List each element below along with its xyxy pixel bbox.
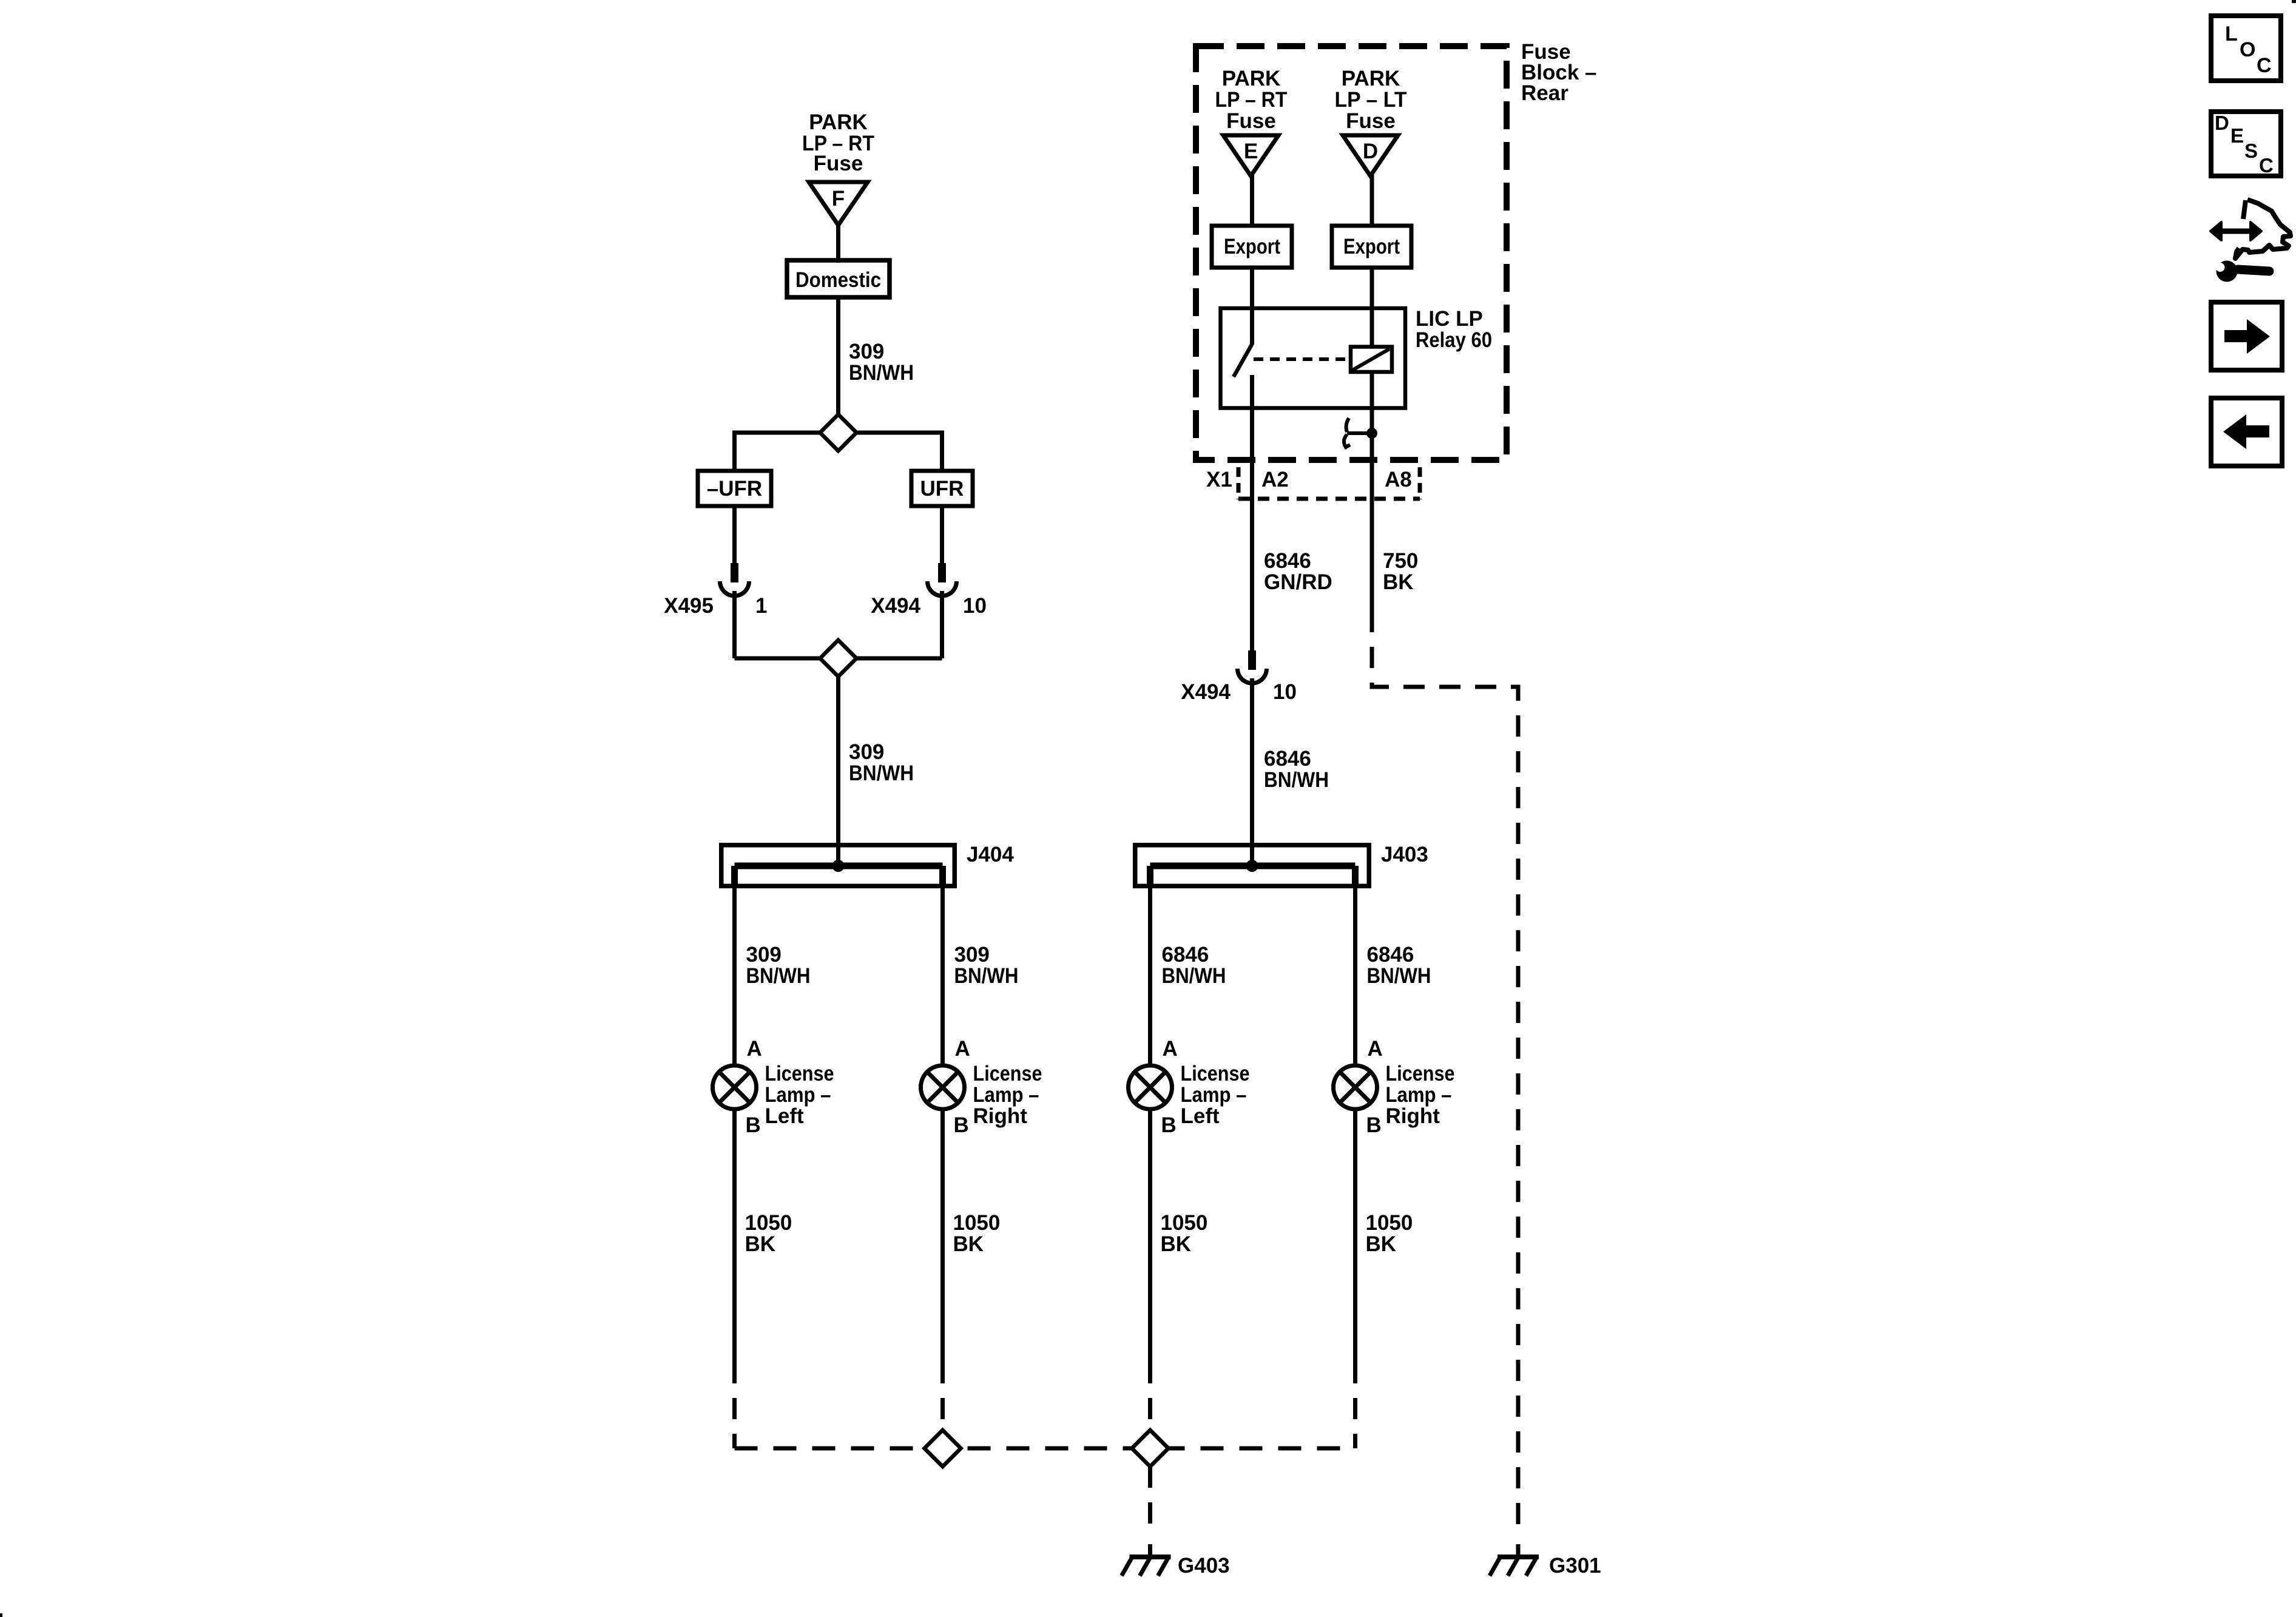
option box Export (left) <box>1212 226 1292 268</box>
splice diamond (lower) <box>820 640 857 677</box>
svg-text:Left: Left <box>765 1104 805 1128</box>
svg-text:License: License <box>765 1062 834 1085</box>
wire lower rail merging branches <box>735 657 942 661</box>
svg-text:Right: Right <box>973 1104 1028 1128</box>
svg-text:D: D <box>2215 112 2229 134</box>
svg-text:BN/WH: BN/WH <box>849 361 914 385</box>
svg-text:B: B <box>1366 1113 1382 1137</box>
svg-text:X495: X495 <box>664 594 714 618</box>
svg-text:License: License <box>1181 1062 1250 1085</box>
svg-text:G301: G301 <box>1549 1554 1601 1578</box>
svg-text:E: E <box>1244 140 1258 163</box>
svg-text:1050: 1050 <box>953 1211 1001 1235</box>
svg-text:BK: BK <box>953 1232 984 1256</box>
page mark top right <box>2292 0 2296 3</box>
svg-text:BK: BK <box>1383 570 1414 594</box>
relay LIC LP Relay 60 box <box>1221 308 1406 408</box>
svg-text:Fuse: Fuse <box>1226 109 1276 133</box>
page mark bottom left <box>0 1613 2 1617</box>
relay switch arm <box>1250 311 1254 345</box>
wire E fuse to Export box <box>1250 175 1254 228</box>
pin A <box>1368 1037 1383 1061</box>
svg-text:Fuse: Fuse <box>814 152 863 175</box>
svg-text:6846: 6846 <box>1162 943 1209 967</box>
svg-text:BK: BK <box>1161 1232 1192 1256</box>
svg-text:Relay 60: Relay 60 <box>1416 328 1492 352</box>
dashed wire to ground G403 <box>1148 1467 1152 1533</box>
wire A8 below relay with ground-strap hook <box>1370 410 1374 611</box>
svg-text:Lamp –: Lamp – <box>1181 1083 1247 1107</box>
svg-text:UFR: UFR <box>920 477 964 501</box>
wire labels 6846 GN/RD and 750 BK <box>1264 549 1418 594</box>
svg-text:D: D <box>1363 140 1378 163</box>
svg-text:Right: Right <box>1386 1104 1440 1128</box>
svg-text:G403: G403 <box>1178 1554 1230 1578</box>
wire right lamp right lamp to ground bus, label 1050 BK <box>1353 1109 1357 1362</box>
svg-text:PARK: PARK <box>1342 67 1400 90</box>
pin B <box>746 1113 761 1137</box>
svg-text:309: 309 <box>849 740 884 764</box>
sidebar icon arrow right <box>2211 302 2282 370</box>
lamp License Lamp - Left <box>1129 1065 1172 1109</box>
svg-text:10: 10 <box>1273 680 1297 704</box>
ground bus dashed wire <box>735 1447 1356 1451</box>
wire left lamp right from junction to lamp, label 309 BN/WH <box>940 868 945 1067</box>
sidebar icon DESC <box>2211 112 2281 176</box>
svg-text:BK: BK <box>745 1232 776 1256</box>
label Fuse Block - Rear <box>1521 40 1597 105</box>
fuse block - rear dashed border <box>1196 46 1507 460</box>
lamp License Lamp - Right <box>1334 1065 1377 1109</box>
splice diamond on bus (left) <box>925 1430 961 1467</box>
svg-text:6846: 6846 <box>1367 943 1414 967</box>
fuse symbol D (triangle) <box>1343 135 1398 176</box>
svg-text:1050: 1050 <box>1366 1211 1413 1235</box>
pin A <box>747 1037 762 1061</box>
wire D through coil <box>1370 311 1374 347</box>
svg-text:A: A <box>747 1037 762 1061</box>
svg-text:6846: 6846 <box>1264 747 1311 771</box>
svg-text:–UFR: –UFR <box>707 477 762 501</box>
svg-text:C: C <box>2257 54 2272 77</box>
wire upper rail to -UFR / UFR branches <box>735 433 942 471</box>
svg-text:X494: X494 <box>871 594 920 618</box>
svg-text:750: 750 <box>1383 549 1418 573</box>
svg-text:PARK: PARK <box>809 110 868 134</box>
svg-text:LIC LP: LIC LP <box>1416 307 1483 331</box>
inline connector X494 pin 10 (right circuit) <box>1248 650 1256 670</box>
pin A <box>955 1037 970 1061</box>
relay control dashed line <box>1254 357 1351 361</box>
svg-text:O: O <box>2240 38 2255 61</box>
junction block J404 <box>721 845 955 886</box>
svg-text:J403: J403 <box>1381 843 1428 866</box>
svg-text:BN/WH: BN/WH <box>1162 964 1226 988</box>
svg-text:Rear: Rear <box>1521 81 1568 105</box>
wire diamond to junction J404, label 309 BN/WH <box>836 677 840 865</box>
fuse PARK LP - RT label <box>1215 67 1288 133</box>
svg-text:A8: A8 <box>1385 468 1412 491</box>
lamp License Lamp - Left <box>713 1065 757 1109</box>
wire left lamp right lamp to ground bus, label 1050 BK <box>940 1109 945 1362</box>
svg-text:A2: A2 <box>1261 468 1289 491</box>
wire A2 below relay <box>1250 408 1254 650</box>
fuse symbol F (triangle) <box>809 182 868 225</box>
svg-text:LP – LT: LP – LT <box>1335 88 1407 112</box>
option box Export (right) <box>1332 226 1411 268</box>
svg-text:BK: BK <box>1366 1232 1397 1256</box>
wire Domestic to splice diamond, label 309 BN/WH <box>836 297 840 416</box>
svg-text:Lamp –: Lamp – <box>765 1083 831 1107</box>
svg-text:Lamp –: Lamp – <box>973 1083 1039 1107</box>
fuse PARK LP - LT label <box>1335 67 1407 133</box>
svg-text:1: 1 <box>755 594 767 618</box>
junction block J403 <box>1135 845 1369 886</box>
svg-text:B: B <box>746 1113 761 1137</box>
fuse symbol E (triangle) <box>1223 135 1278 176</box>
svg-text:Lamp –: Lamp – <box>1386 1083 1452 1107</box>
fuse PARK LP - RT label (left circuit) <box>802 110 874 175</box>
svg-text:X1: X1 <box>1206 468 1232 491</box>
wire Export to relay (left) <box>1250 268 1254 311</box>
pin B <box>1161 1113 1177 1137</box>
wire right lamp right from junction to lamp, label 6846 BN/WH <box>1353 868 1357 1067</box>
ground G403 <box>1148 1544 1152 1556</box>
svg-text:PARK: PARK <box>1222 67 1281 90</box>
svg-text:Domestic: Domestic <box>795 268 881 292</box>
wire Export to relay (right) <box>1370 268 1374 311</box>
wire 750 BK dashed to ground G301 <box>1372 611 1518 1533</box>
svg-text:B: B <box>954 1113 969 1137</box>
svg-text:License: License <box>1386 1062 1455 1085</box>
svg-text:J404: J404 <box>967 843 1014 866</box>
wire left lamp left lamp to ground bus, label 1050 BK <box>732 1109 737 1362</box>
svg-text:C: C <box>2259 154 2274 177</box>
svg-text:A: A <box>1163 1037 1178 1061</box>
relay coil <box>1351 347 1392 373</box>
svg-text:LP – RT: LP – RT <box>1215 88 1288 112</box>
svg-text:BN/WH: BN/WH <box>849 761 914 785</box>
svg-text:BN/WH: BN/WH <box>954 964 1019 988</box>
svg-text:Fuse: Fuse <box>1346 109 1396 133</box>
option box Domestic <box>787 260 890 297</box>
option box -UFR <box>698 471 771 506</box>
pin A <box>1163 1037 1178 1061</box>
wire X494 to J403, label 6846 BN/WH <box>1250 678 1254 865</box>
ground G301 <box>1516 1544 1521 1556</box>
pin B <box>954 1113 969 1137</box>
svg-text:Export: Export <box>1224 235 1280 258</box>
svg-text:F: F <box>832 187 845 211</box>
svg-text:309: 309 <box>746 943 782 967</box>
svg-text:X494: X494 <box>1181 680 1231 704</box>
option box UFR <box>911 471 973 506</box>
sidebar icon arrow left <box>2211 398 2282 466</box>
svg-text:BN/WH: BN/WH <box>1264 768 1329 792</box>
lamp License Lamp - Right <box>921 1065 965 1109</box>
wire -UFR to connector X495 <box>732 506 737 564</box>
svg-text:A: A <box>1368 1037 1383 1061</box>
svg-text:S: S <box>2244 140 2258 162</box>
svg-text:1050: 1050 <box>1161 1211 1208 1235</box>
wire left lamp left from junction to lamp, label 309 BN/WH <box>732 868 737 1067</box>
svg-text:1050: 1050 <box>745 1211 792 1235</box>
connector X1 row (A2 / A8) <box>1237 467 1241 499</box>
wire right lamp left lamp to ground bus, label 1050 BK <box>1148 1109 1152 1362</box>
inline connector X494 pin 10 <box>938 563 946 582</box>
svg-text:Left: Left <box>1181 1104 1220 1128</box>
sidebar icon LOC <box>2211 16 2281 81</box>
svg-text:B: B <box>1161 1113 1177 1137</box>
svg-text:10: 10 <box>963 594 987 618</box>
splice diamond (upper) <box>820 414 857 451</box>
svg-text:309: 309 <box>954 943 990 967</box>
pin B <box>1366 1113 1382 1137</box>
sidebar icon vehicle double-arrow with wrench <box>2210 200 2291 258</box>
svg-text:License: License <box>973 1062 1042 1085</box>
svg-text:GN/RD: GN/RD <box>1264 570 1332 594</box>
wire D fuse to Export box <box>1370 175 1374 228</box>
splice diamond on bus (right) <box>1132 1430 1169 1467</box>
svg-text:A: A <box>955 1037 970 1061</box>
wire right lamp left from junction to lamp, label 6846 BN/WH <box>1148 868 1152 1067</box>
svg-text:BN/WH: BN/WH <box>1367 964 1431 988</box>
wire UFR to connector X494 <box>940 506 944 564</box>
svg-text:E: E <box>2230 124 2244 147</box>
inline connector X495 pin 1 <box>731 563 738 582</box>
wire fuse F to Domestic box <box>836 224 840 263</box>
svg-text:L: L <box>2225 22 2238 46</box>
svg-text:Export: Export <box>1343 235 1400 258</box>
svg-text:309: 309 <box>849 340 884 363</box>
svg-text:BN/WH: BN/WH <box>746 964 811 988</box>
svg-text:6846: 6846 <box>1264 549 1311 573</box>
